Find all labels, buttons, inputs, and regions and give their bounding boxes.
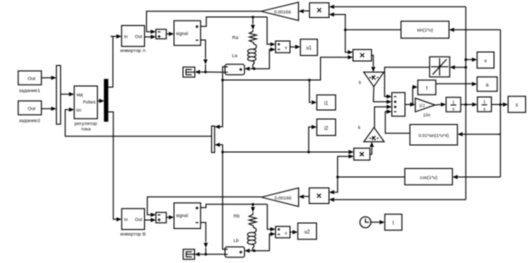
wire theta vertical bus <box>499 30 501 177</box>
wire ia to i1 and product A2 <box>223 79 310 81</box>
display u2 <box>298 223 317 239</box>
wire armature B top to voltmeter B plus <box>267 204 275 231</box>
junction ib branch to i2 <box>307 151 310 154</box>
svg-text:In: In <box>124 217 128 222</box>
ground block B <box>183 249 194 259</box>
label k B <box>358 125 361 130</box>
sum block Sum A (- +) <box>156 29 166 39</box>
resistor Ra <box>249 30 256 44</box>
wire ia branch down to i1 <box>309 80 316 105</box>
wire signal B - output down to ground node B <box>201 223 208 255</box>
wire voltmeter A to u1 <box>290 45 300 49</box>
resistor Rb <box>249 212 256 227</box>
wire cos branch up to product C <box>338 154 354 177</box>
wire Pulses to demux <box>97 99 104 103</box>
junction ia node <box>221 79 224 82</box>
junction cos output node <box>336 176 339 179</box>
display u1 <box>300 39 317 55</box>
svg-text:s: s <box>483 106 485 111</box>
subsystem инвертор A <box>120 26 146 55</box>
wire ib node to feedback mux <box>215 143 223 152</box>
label La <box>232 53 238 59</box>
wire La bottom node to voltmeter A minus <box>254 47 275 68</box>
wire signal A + output to armature A node <box>201 17 268 26</box>
junction ground node B <box>205 253 208 256</box>
wire ground node B to current meter B minus <box>206 253 225 255</box>
svg-text:0.01*sin(1*u*4): 0.01*sin(1*u*4) <box>418 133 449 138</box>
integrator 1 block 1/s <box>446 97 461 112</box>
wire feedback mux output to регулятор iос <box>65 108 211 137</box>
wire cos output to node <box>338 176 405 178</box>
ground block A <box>183 67 195 77</box>
gain 1/J (right pointing triangle) <box>415 98 435 112</box>
display s <box>508 96 525 112</box>
function block cos(1*u) <box>405 169 453 185</box>
wire demux to инвертор A In <box>108 34 122 87</box>
wire ground node B to ground block B <box>195 252 206 256</box>
voltage measurement sum B (+ v -) <box>276 226 291 237</box>
junction ib node <box>221 151 224 154</box>
block задание2 (reference source 2) <box>18 101 41 124</box>
svg-text:signal: signal <box>176 31 188 36</box>
wire ripple output to torque sum port4 <box>385 110 410 134</box>
svg-text:La: La <box>232 53 238 59</box>
label Lb <box>234 238 240 244</box>
wire sign block output to torque sum port1 <box>385 67 430 98</box>
svg-text:Rb: Rb <box>234 213 240 219</box>
svg-text:In: In <box>124 34 128 39</box>
wire theta to sin input <box>449 28 500 32</box>
product block ×B (emf B) <box>309 188 329 204</box>
integrator 2 block 1/s <box>477 97 491 112</box>
wire omega to sign block <box>450 65 466 69</box>
wire omega to v display <box>466 58 477 62</box>
svg-text:i2: i2 <box>324 126 328 132</box>
junction armature A top node <box>252 16 255 19</box>
product block ×A (emf A) <box>310 3 330 18</box>
gain 0.00166 B (left pointing triangle) <box>261 188 298 207</box>
wire cos branch down to product B <box>329 177 338 194</box>
wire theta to cos input <box>452 175 500 179</box>
svg-text:тока: тока <box>81 128 91 133</box>
inductor Lb <box>247 228 256 251</box>
block регулятор тока (current regulator) <box>74 86 97 133</box>
svg-text:задание2: задание2 <box>19 118 41 124</box>
product block ×C (ib*cos) <box>354 148 370 160</box>
sign block (friction characteristic) <box>430 57 450 77</box>
wire omega node to integrator 2 <box>461 102 478 106</box>
function block sin(1*u) <box>401 21 449 38</box>
inductor La <box>248 44 257 69</box>
svg-text:Out: Out <box>28 106 36 112</box>
wire theta to ripple input <box>457 132 500 136</box>
controlled voltage source signal A <box>174 21 201 46</box>
controlled voltage source signal B <box>174 203 201 229</box>
thin feedback mux (currents) <box>212 126 215 153</box>
svg-text:Pulses: Pulses <box>83 99 96 104</box>
wire signal A - output down to ground node <box>201 40 208 72</box>
wire gain kB output to torque sum port3 <box>375 105 392 128</box>
block задание1 (reference source 1) <box>18 71 41 94</box>
svg-text:k: k <box>359 80 362 85</box>
wire f to display a <box>436 82 477 86</box>
gain -K- A (down pointing triangle) <box>364 72 384 87</box>
svg-text:u1: u1 <box>306 46 312 52</box>
wire omega to product B input 2 <box>329 198 466 202</box>
svg-text:Ra: Ra <box>232 35 238 41</box>
current measurement block i B <box>225 247 245 257</box>
svg-text:зад: зад <box>76 92 83 97</box>
wire Lb bottom node to voltmeter B minus <box>254 232 275 251</box>
function block 0.01*sin(1*u*4) (torque ripple) <box>410 125 458 146</box>
wire sum B to signal B <box>166 215 174 219</box>
label k A <box>359 80 362 85</box>
junction omega to sign <box>465 66 468 69</box>
gain 0.00166 A (left pointing triangle) <box>261 2 299 20</box>
wire armature A top to voltmeter A plus <box>267 17 275 46</box>
product block ×A2 (ia*sin) <box>353 50 372 62</box>
junction La bottom node <box>253 67 256 70</box>
wire torque branch up to f display <box>413 85 418 105</box>
wire ground node A to ground block <box>195 70 206 74</box>
svg-text:u2: u2 <box>304 230 310 236</box>
demux Demux (black bar) <box>104 79 107 121</box>
junction omega to v <box>465 58 468 61</box>
svg-text:инвертор B: инвертор B <box>120 232 146 238</box>
svg-text:a: a <box>486 83 489 89</box>
wire inductor to current meter B <box>245 249 253 253</box>
clock block <box>360 217 371 228</box>
wire clock to t display <box>371 220 385 224</box>
wire product B output to gain B <box>299 195 310 199</box>
wire sin output branch down to product A2 <box>345 30 353 55</box>
wire ib node to product C <box>223 150 354 154</box>
wire current meter B output (ib) <box>223 152 225 249</box>
svg-text:sin(1*u): sin(1*u) <box>417 28 434 33</box>
subsystem инвертор B <box>120 209 146 238</box>
svg-text:Lb: Lb <box>234 238 240 244</box>
wire theta branch to ripple corner <box>498 133 500 135</box>
gain -K- B (up pointing triangle) <box>364 128 384 142</box>
wire product A2 output to gain kA <box>371 55 375 72</box>
wire ia up to product A2 input <box>309 55 353 80</box>
display v <box>477 52 494 68</box>
svg-text:инвертор A: инвертор A <box>120 48 146 54</box>
svg-text:signal: signal <box>176 213 188 218</box>
display i1 <box>317 95 336 110</box>
wire инвертор A Out to sum A <box>145 35 156 39</box>
wire sin output to node <box>345 29 401 31</box>
display f <box>418 80 436 95</box>
svg-text:cos(1*u): cos(1*u) <box>420 175 438 180</box>
wire sum A to signal A <box>166 32 174 36</box>
svg-text:0.00166: 0.00166 <box>274 9 291 14</box>
svg-text:регулятор: регулятор <box>74 122 97 127</box>
wire инвертор B Out to sum B <box>145 218 156 222</box>
wire ia down to feedback mux <box>215 80 223 129</box>
junction theta node <box>499 103 502 106</box>
junction sin output node <box>344 29 347 32</box>
wire node to resistor Rb <box>251 204 255 212</box>
svg-text:Out: Out <box>28 76 36 82</box>
svg-text:Out: Out <box>135 217 143 222</box>
junction armature B top node <box>252 203 255 206</box>
display a <box>477 77 497 91</box>
mux Mux1 (reference mux) <box>56 66 60 125</box>
wire ground node A to current meter A minus <box>206 71 226 73</box>
wire node to resistor Ra <box>251 17 255 30</box>
svg-text:1/m: 1/m <box>423 113 431 118</box>
wire signal B + output to armature B node <box>201 204 268 207</box>
display i2 <box>317 119 336 136</box>
wire ib branch up to i2 <box>309 125 317 152</box>
junction ground node A <box>204 71 207 74</box>
svg-text:i1: i1 <box>324 101 328 107</box>
wire product C output to gain kB <box>370 142 374 154</box>
current measurement block i A <box>225 64 245 74</box>
wire mux to регулятор зад input <box>61 92 75 96</box>
wire omega to product A input 1 <box>329 5 466 9</box>
junction omega node <box>465 103 468 106</box>
wire gain A output to sum A minus input <box>147 11 262 34</box>
wire torque sum output to 1/J <box>405 102 415 106</box>
svg-text:s: s <box>452 107 454 112</box>
wire inductor to current meter A <box>245 67 253 71</box>
sum block Sum B (- +) <box>156 212 166 222</box>
label 1/m <box>423 113 431 118</box>
wire задание1 to mux <box>41 76 56 80</box>
wire gain kA output to torque sum port2 <box>373 87 391 104</box>
wire theta node to display s <box>491 102 508 106</box>
junction torque branch to f <box>412 103 414 105</box>
svg-text:Out: Out <box>135 34 143 39</box>
junction Lb bottom node <box>253 249 256 252</box>
svg-text:1/J: 1/J <box>419 103 424 108</box>
wire demux to инвертор B In <box>108 112 122 221</box>
svg-text:iос: iос <box>76 107 81 112</box>
wire gain B output to sum B minus input <box>147 197 261 217</box>
wire product A output to gain A <box>299 9 310 13</box>
svg-text:0.00166: 0.00166 <box>275 195 292 200</box>
wire 1/J to integrator 1 <box>435 102 446 106</box>
svg-text:задание1: задание1 <box>19 88 41 94</box>
sum block torque (- + + -) <box>392 93 405 117</box>
wire omega vertical bus <box>465 7 467 200</box>
label Ra <box>232 35 238 41</box>
wire задание2 to mux <box>41 107 56 111</box>
display t <box>385 214 402 230</box>
voltage measurement sum A (+ v -) <box>276 41 291 53</box>
wire voltmeter B to u2 <box>290 230 298 234</box>
label Rb <box>234 213 240 219</box>
wire current meter A output (ia) <box>223 67 225 80</box>
svg-text:k: k <box>358 125 361 130</box>
junction ia branch to i1 <box>308 79 311 82</box>
wire sin output branch up to product A input 2 <box>329 12 345 29</box>
